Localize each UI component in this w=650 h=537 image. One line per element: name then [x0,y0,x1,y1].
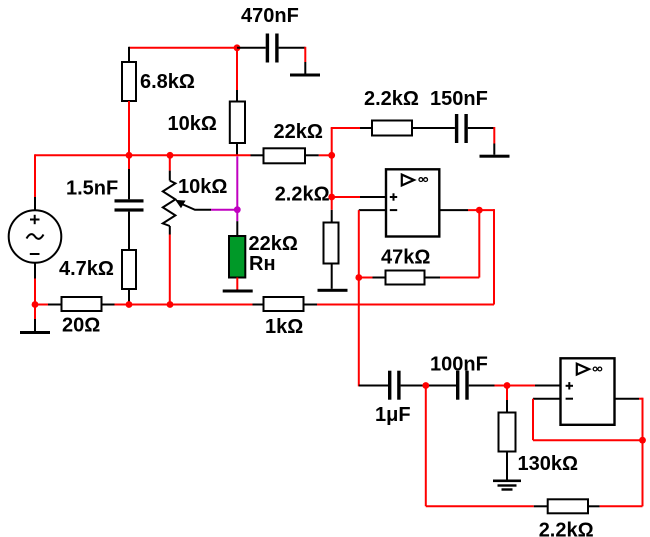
node junction dot bus / R 4.7k [126,301,133,308]
pot wiper arrowhead [175,200,185,208]
svg-text:6.8kΩ: 6.8kΩ [140,71,195,93]
wire C 150nF right lead to ground [468,127,495,129]
resistor R2 10kΩ vertical [230,102,245,144]
earth ground under R 130k [493,480,521,483]
op-amp U2 minus pin mark [566,398,573,400]
wire R 6.8k bottom lead to main bus [128,101,130,155]
wire op1 -input [359,209,386,211]
wire C 1.5nF bottom lead [128,212,130,250]
op-amp U1 plus pin mark [390,196,397,198]
op-amp U1 minus pin mark [390,209,397,211]
resistor R9 2.2kΩ mid vertical [324,223,339,264]
wire op2 output down right side [642,398,644,507]
wire bus to node B [319,154,332,156]
wire R 20 right lead [102,304,115,306]
wire R 47k left lead [359,277,373,279]
svg-text:22kΩ: 22kΩ [249,233,298,255]
wire bottom feedback loop left [426,505,534,507]
wire R 4.7k bottom lead [128,289,130,305]
wire node F to op2 +input [504,385,536,387]
node D junction dot at R 47k left [355,274,362,281]
resistor R4 4.7kΩ [122,250,136,289]
wire Rn top lead [236,221,238,236]
wire R 2.2k bottom right lead [588,505,600,507]
node F junction dot at R 130k [504,382,511,389]
wire C 1uF left lead [359,385,388,387]
wire C 470nF right lead to ground [279,47,306,49]
wire op1 +input [332,196,360,198]
resistor R6 20Ω horizontal [62,297,102,311]
svg-text:10kΩ: 10kΩ [178,176,227,198]
op-amp U1 triangle symbol [402,175,414,186]
node B2 junction dot to op1 +input [328,194,335,201]
wire bottom bus middle [115,304,253,306]
node junction dot bus / pot bottom [167,301,174,308]
wire R 1k left lead [253,304,264,306]
wire C 1.5nF top lead [128,155,130,169]
wire R 2.2k TR right lead to C 150nF [412,127,455,129]
ground bar under C 150nF [480,155,510,158]
ground bar under Rн [223,290,253,293]
wire R 10k top lead [236,90,238,102]
wire node A down to R 10k [236,48,238,90]
svg-text:1μF: 1μF [375,404,411,426]
svg-text:10kΩ: 10kΩ [168,113,217,135]
capacitor C5 100nF [456,371,459,400]
wire R 130k bottom lead [506,452,508,481]
wire R 130k top lead [506,386,508,401]
wire R 2.2k mid bottom lead [331,264,333,289]
capacitor C4 1μF [388,371,391,400]
wire R 47k right up to op1 output [478,210,480,277]
wire R 2.2k mid top lead [331,210,333,223]
svg-text:100nF: 100nF [430,354,488,376]
capacitor C1 470nF [266,34,269,63]
svg-text:1.5nF: 1.5nF [66,178,118,200]
wire potentiometer bottom lead [169,226,171,235]
node junction dot bus / potentiometer [167,152,174,159]
wire node B vertical column [331,128,333,210]
svg-text:22kΩ: 22kΩ [274,121,323,143]
wire wiper to node C (purple) [211,209,237,211]
node junction dot op2 output loop [639,437,646,444]
capacitor C2 1.5nF vertical [115,199,144,202]
ground bar under C 470nF [290,74,320,77]
pot wiper arrow line [183,205,211,210]
op-amp U2 infinity symbol [593,367,597,371]
wire bottom bus right to op1 output loop [317,304,494,306]
wire op1 output [439,209,468,211]
svg-text:4.7kΩ: 4.7kΩ [59,258,114,280]
wire node D down to C 1uF [358,278,360,387]
wire op2 output [615,398,640,400]
wire R 2.2k bottom left lead [534,505,548,507]
op-amp U1 body [386,169,439,236]
node A junction dot at 470nF tap [234,44,241,51]
wire R 47k right lead [425,277,441,279]
wire R 22k right lead [305,154,319,156]
wire Rn bottom lead [236,278,238,290]
op-amp U2 plus pin mark [566,385,573,387]
wire C 1uF right lead to C 100nF [401,385,456,387]
wire op2 -input feedback [533,398,561,400]
potentiometer R5 10kΩ zigzag body [163,181,176,226]
wire R 6.8k top lead [128,47,130,62]
svg-text:150nF: 150nF [430,88,488,110]
svg-text:2.2kΩ: 2.2kΩ [364,88,419,110]
wire potentiometer top lead [169,154,171,170]
wire R 22k left lead [251,154,264,156]
AC source V1 [9,210,62,263]
svg-text:47kΩ: 47kΩ [381,247,430,269]
svg-text:20Ω: 20Ω [62,315,100,337]
wire R 1k right lead [304,304,318,306]
node junction dot op1 output [476,207,483,214]
svg-text:130kΩ: 130kΩ [518,453,579,475]
node junction dot source/ground [32,301,39,308]
wire R 2.2k TR left lead [360,127,372,129]
resistor R3 22kΩ horizontal [264,148,306,163]
resistor Rн 22kΩ load (green) [229,236,245,278]
wire main bus horizontal [35,154,251,156]
wire bottom bus to R 20 [35,304,48,306]
wire AC source bottom lead [34,263,36,279]
svg-text:1kΩ: 1kΩ [265,316,303,338]
resistor R10 47kΩ feedback [386,271,425,285]
ground bar under source [20,331,50,334]
node B junction dot [328,152,335,159]
svg-text:2.2kΩ: 2.2kΩ [275,184,330,206]
resistor R11 130kΩ vertical [499,413,516,452]
svg-text:470nF: 470nF [241,5,299,27]
op-amp U2 body [561,358,615,425]
wire net A: top horizontal from R 6.8k to 470nF node [129,47,237,49]
resistor R8 2.2kΩ top right [372,121,412,136]
wire AC source top lead [34,154,36,197]
wire R 20 left lead [48,304,62,306]
node C junction dot (purple) [234,206,241,213]
svg-text:2.2kΩ: 2.2kΩ [539,520,594,537]
wire op1 output down to bottom bus [493,209,495,304]
wire node E down to feedback loop [425,386,427,507]
wire ground lead under source [34,305,36,320]
node junction dot bus / C 1.5nF [126,152,133,159]
wire node B to R 2.2k top right [331,127,360,129]
ground bar under R 2.2k mid [318,289,348,292]
node E junction dot after 1uF [422,382,429,389]
capacitor C3 150nF [455,114,458,143]
wire node C vertical (purple) [236,156,238,221]
wire R 10k bottom lead [236,143,238,156]
op-amp U1 infinity symbol [419,178,423,182]
resistor R12 2.2kΩ bottom [548,499,588,513]
wire C 100nF right lead [469,385,495,387]
resistor R7 1kΩ horizontal [264,297,304,311]
op-amp U2 triangle symbol [577,364,589,375]
svg-text:Rн: Rн [249,253,276,275]
resistor R1 6.8kΩ [122,62,136,101]
wire node A to C 470nF left lead [237,47,266,49]
